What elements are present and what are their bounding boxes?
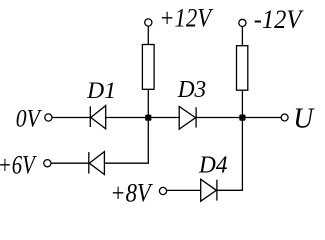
terminal -12V bbox=[239, 19, 246, 26]
terminal +12V bbox=[145, 19, 152, 26]
svg-text:D3: D3 bbox=[177, 77, 206, 103]
diode D2 triangle bbox=[89, 152, 104, 175]
wire node B down to D4 corner bbox=[217, 118, 243, 191]
resistor R1 bbox=[142, 45, 154, 90]
terminal +8V bbox=[159, 187, 166, 194]
diode D3 cathode bar bbox=[195, 107, 197, 127]
svg-text:+6V: +6V bbox=[0, 151, 37, 180]
svg-text:-12V: -12V bbox=[254, 5, 304, 34]
wire D1 to node A bbox=[106, 117, 149, 119]
wire R1 to node A bbox=[147, 89, 149, 117]
diode D4 cathode bar bbox=[216, 180, 218, 201]
wire D3 to node B bbox=[196, 117, 242, 119]
svg-text:D4: D4 bbox=[198, 152, 227, 178]
wire +6V terminal to D2 bbox=[51, 162, 89, 164]
diode D3 triangle bbox=[179, 107, 195, 130]
wire 0V terminal to D1 bbox=[52, 117, 90, 119]
wire node B to U terminal bbox=[242, 117, 281, 119]
wire R2 to node B bbox=[241, 90, 243, 117]
terminal 0V bbox=[45, 114, 52, 121]
node A junction dot bbox=[145, 115, 151, 121]
wire node A to D3 bbox=[148, 117, 179, 119]
diode D1 cathode bar bbox=[89, 106, 91, 127]
diode D1 triangle bbox=[91, 106, 106, 129]
wire +12V terminal to R1 bbox=[147, 26, 149, 44]
svg-text:D1: D1 bbox=[86, 78, 116, 103]
svg-text:0V: 0V bbox=[16, 105, 42, 133]
svg-text:+12V: +12V bbox=[159, 3, 214, 32]
svg-text:+8V: +8V bbox=[110, 179, 153, 208]
svg-text:U: U bbox=[293, 103, 315, 135]
terminal U bbox=[281, 114, 288, 121]
node B junction dot bbox=[239, 115, 245, 121]
diode D4 triangle bbox=[201, 179, 217, 201]
wire -12V terminal to R2 bbox=[241, 27, 243, 46]
wire +8V terminal to D4 bbox=[167, 189, 201, 191]
resistor R2 bbox=[237, 46, 248, 90]
diode D2 cathode bar bbox=[88, 152, 90, 174]
wire D2 to node A (right then up) bbox=[104, 118, 148, 164]
terminal +6V bbox=[44, 160, 51, 167]
